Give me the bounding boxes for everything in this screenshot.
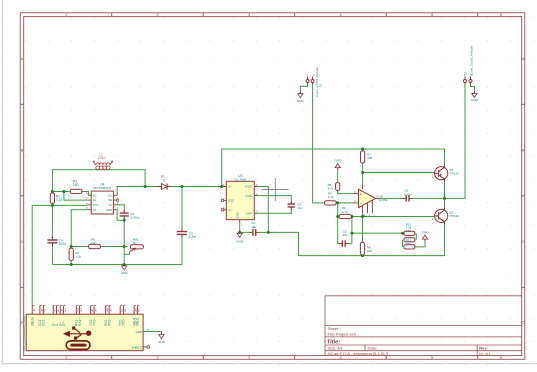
wire CII feedback drop [71, 210, 88, 247]
wire op-amp pin4 to R6/R8 node [362, 213, 364, 217]
svg-text:GND: GND [121, 271, 129, 275]
resistor R2 1.5k [69, 248, 81, 260]
resistor R12 200 [404, 245, 415, 249]
svg-text:5: 5 [431, 356, 433, 360]
svg-text:GND: GND [106, 208, 112, 212]
ground symbol U3 GND [236, 231, 244, 243]
wire R1 column [51, 192, 53, 206]
capacitor C1 0.001u [120, 210, 140, 220]
wire R10 chain links [403, 233, 426, 247]
svg-text:KiCad E.D.A. eeschema (5.1.5): KiCad E.D.A. eeschema (5.1.5)-3 [328, 351, 389, 356]
wire C5 left leg [338, 217, 340, 244]
svg-text:4.7k: 4.7k [328, 195, 334, 199]
svg-text:C: C [21, 240, 24, 244]
diode D1 [157, 175, 171, 190]
svg-text:TX2+: TX2+ [122, 318, 126, 326]
svg-text:1: 1 [65, 356, 67, 360]
wire U3 GND node [240, 223, 251, 233]
wire R2 legs [70, 247, 72, 265]
wire TC pin to C1 [116, 205, 124, 212]
transistor Q2 TIP122 [432, 207, 459, 224]
svg-text:GND: GND [236, 212, 240, 218]
wire C2 to V- node [258, 231, 269, 233]
svg-text:1.5k: 1.5k [75, 255, 81, 259]
svg-text:4: 4 [339, 13, 341, 17]
svg-text:200: 200 [406, 242, 411, 246]
resistor R11 1.8k [404, 238, 415, 242]
wire R7 bottom to op-amp V+ [362, 163, 364, 184]
svg-text:USB_C_Receptacle_USB2.0: USB_C_Receptacle_USB2.0 [22, 313, 26, 351]
resistor R10 1.5k [404, 231, 415, 235]
wire R5 to non-inverting input [338, 190, 353, 193]
svg-text:3: 3 [248, 13, 250, 17]
wire C5 right leg [348, 217, 352, 244]
svg-text:180: 180 [73, 183, 79, 187]
title block [325, 296, 522, 356]
connector J3 Conn_01x02_Female [306, 67, 322, 97]
svg-text:VCC: VCC [93, 203, 99, 207]
wire C5 node to R10 chain [352, 232, 401, 234]
svg-text:CAP+: CAP+ [245, 194, 253, 198]
svg-text:Size: A4: Size: A4 [328, 346, 343, 351]
svg-text:GND: GND [334, 158, 342, 162]
IC U4 MC34063AP [86, 183, 119, 215]
wire R8 top/bottom [362, 217, 364, 256]
svg-text:0.33: 0.33 [56, 198, 63, 202]
svg-text:Conn_01x02_Female: Conn_01x02_Female [469, 45, 473, 75]
wire Q1 base drive [363, 172, 435, 174]
wire supply rail up and over to Q1 [222, 149, 445, 187]
svg-text:SC: SC [108, 193, 112, 197]
svg-text:GND: GND [471, 98, 479, 102]
svg-text:File: Project.sch: File: Project.sch [328, 331, 356, 336]
wire Q2 base [363, 216, 435, 218]
USB-C receptacle icon [66, 341, 90, 350]
svg-text:GND: GND [158, 340, 166, 344]
ground symbol J3 [297, 92, 305, 103]
svg-text:4: 4 [339, 356, 341, 360]
svg-text:5k: 5k [133, 241, 137, 245]
svg-text:CC2: CC2 [42, 319, 46, 326]
svg-text:LV: LV [228, 208, 231, 212]
svg-text:6: 6 [500, 13, 502, 17]
svg-text:Title:: Title: [327, 339, 340, 345]
wire op-amp output to C6 [380, 197, 403, 199]
resistor R1 0.33 [50, 193, 62, 203]
svg-text:TX1+: TX1+ [92, 318, 96, 326]
svg-text:2: 2 [156, 356, 158, 360]
capacitor C3 10u [288, 201, 303, 210]
capacitor C4 100u [47, 237, 66, 246]
wire L1 top rail [52, 170, 145, 192]
svg-text:Ipk: Ipk [93, 198, 97, 202]
wire GND pin around C1 [116, 210, 124, 221]
svg-text:C: C [522, 240, 525, 244]
IC U3 ICL7660 [221, 174, 258, 227]
ground symbol USB GND [158, 333, 166, 344]
svg-text:SHIELD: SHIELD [132, 345, 142, 349]
capacitor C2 10u [250, 221, 259, 236]
capacitor C5 10u [339, 230, 348, 247]
wire U3 VOUT drop [257, 187, 268, 233]
wire C7 column [181, 187, 183, 265]
wire C6 to emitter junction [412, 197, 445, 199]
svg-text:RX1+: RX1+ [78, 318, 82, 326]
capacitor C6 0.82u [403, 189, 412, 202]
wire Q1 emitter to junction [444, 179, 446, 198]
wire R5 to GND above [337, 168, 339, 183]
svg-text:TC: TC [108, 203, 112, 207]
ground symbol R12 [422, 230, 430, 241]
svg-text:2: 2 [156, 13, 158, 17]
svg-text:10u: 10u [297, 206, 302, 210]
svg-text:TIP122: TIP122 [449, 214, 459, 218]
svg-text:GND: GND [236, 239, 244, 243]
resistor R7 200 [361, 151, 373, 163]
resistor R6 4.7k [339, 206, 351, 218]
resistor R4 4.7k [325, 192, 337, 205]
trimmer RV1 5k [130, 237, 144, 251]
svg-text:R11: R11 [406, 229, 411, 233]
wire U3 CAP- to C3 [257, 209, 291, 214]
svg-text:Conn_01x02_Female: Conn_01x02_Female [315, 67, 319, 97]
wire J3 signal input [313, 83, 325, 203]
svg-text:B: B [21, 148, 24, 152]
svg-text:LF356: LF356 [379, 198, 388, 202]
svg-text:CII: CII [93, 208, 97, 212]
svg-text:ICL7660: ICL7660 [234, 177, 246, 181]
svg-text:TIP127: TIP127 [449, 171, 459, 175]
svg-text:A: A [21, 57, 24, 61]
svg-text:100u: 100u [98, 156, 105, 160]
wire R6 row [338, 216, 363, 218]
wire VBUS rail from USB to R1/VCC node [32, 205, 88, 305]
wire SWC pin to rail [116, 187, 145, 196]
svg-text:D+: D+ [62, 322, 66, 326]
resistor R3 180 [70, 180, 82, 194]
svg-text:CAP-: CAP- [246, 212, 253, 216]
svg-text:GND: GND [297, 99, 305, 103]
svg-text:GND: GND [422, 230, 430, 234]
wire R7 top to supply rail [362, 149, 364, 151]
USB trident logo [64, 327, 91, 340]
wire C4 column [51, 205, 53, 264]
ground symbol above R5 [334, 158, 342, 169]
transistor Q1 TIP127 [432, 165, 459, 182]
wire J2 pin2 to GND [471, 83, 475, 93]
svg-text:GND: GND [136, 330, 142, 334]
wire ground rail left [52, 264, 182, 266]
cursor crosshair [262, 178, 289, 201]
svg-text:0.001u: 0.001u [131, 215, 141, 219]
svg-text:J2: J2 [464, 72, 468, 76]
svg-text:10u: 10u [343, 233, 348, 237]
svg-text:4.7k: 4.7k [342, 210, 348, 214]
ground symbol J2 [471, 92, 479, 103]
svg-text:5: 5 [431, 13, 433, 17]
svg-text:2.2m: 2.2m [189, 235, 197, 239]
wire USB GND pin [146, 332, 161, 334]
connector J2 Conn_01x02_Female [464, 45, 474, 84]
resistor R8 200 [360, 242, 372, 255]
svg-text:200: 200 [367, 156, 372, 160]
svg-text:Rev:: Rev: [479, 346, 488, 351]
svg-text:OSC: OSC [228, 199, 234, 203]
svg-text:100u: 100u [59, 242, 67, 246]
svg-text:D: D [522, 320, 525, 324]
wire RV1 wiper tap [124, 252, 129, 254]
wire main output rail with D1 [145, 186, 223, 188]
svg-text:J3: J3 [318, 84, 322, 88]
svg-text:4.7k: 4.7k [328, 187, 334, 191]
svg-text:DC: DC [93, 193, 97, 197]
wire feedback node drop [337, 203, 339, 217]
connector J1 USB_C_Receptacle [22, 306, 151, 351]
svg-text:12k: 12k [91, 241, 96, 245]
capacitor C7 2.2m [177, 228, 196, 239]
svg-text:3: 3 [248, 356, 250, 360]
svg-text:200: 200 [367, 249, 372, 253]
svg-text:0.82u: 0.82u [404, 192, 412, 196]
wire R9 row [71, 246, 127, 248]
op-amp U5 LF356 [353, 184, 388, 218]
svg-text:Sheet: /: Sheet: / [328, 326, 343, 331]
wire J3 pin1 to GND [300, 83, 307, 93]
svg-text:SE: SE [108, 198, 112, 202]
svg-text:SBU2: SBU2 [136, 317, 140, 326]
wire C1 to ground rail [123, 217, 125, 264]
wire R3 branch and DRC pin [52, 192, 88, 196]
resistor R5 4.7k [328, 183, 340, 191]
svg-text:B: B [522, 148, 525, 152]
resistor R9 12k [89, 237, 101, 248]
ground symbol at main rail [121, 264, 129, 275]
svg-text:6: 6 [500, 356, 502, 360]
svg-text:VOUT: VOUT [245, 185, 253, 189]
wire Ipk sense [64, 192, 88, 201]
inductor L1 100u (coupled) [93, 153, 113, 170]
wire junction to Q2 collector [444, 198, 446, 209]
junction dots [51, 148, 446, 267]
svg-text:Date:: Date: [368, 346, 378, 351]
svg-text:MC34063AP: MC34063AP [94, 186, 112, 190]
svg-text:VBUS: VBUS [31, 317, 35, 326]
wire R4 to inverting input [336, 202, 353, 204]
svg-text:10u: 10u [251, 225, 256, 229]
svg-text:RX2+: RX2+ [107, 318, 111, 326]
wire V- distribution [268, 223, 444, 256]
labels R10/R11/R12 [406, 222, 412, 246]
svg-text:V+: V+ [228, 185, 232, 189]
svg-text:1: 1 [65, 13, 67, 17]
wire U3 CAP+ to C3 [257, 196, 291, 203]
wire J2 pin1 output [445, 83, 466, 199]
svg-text:A: A [522, 57, 525, 61]
svg-text:Id: 1/1: Id: 1/1 [479, 351, 491, 356]
